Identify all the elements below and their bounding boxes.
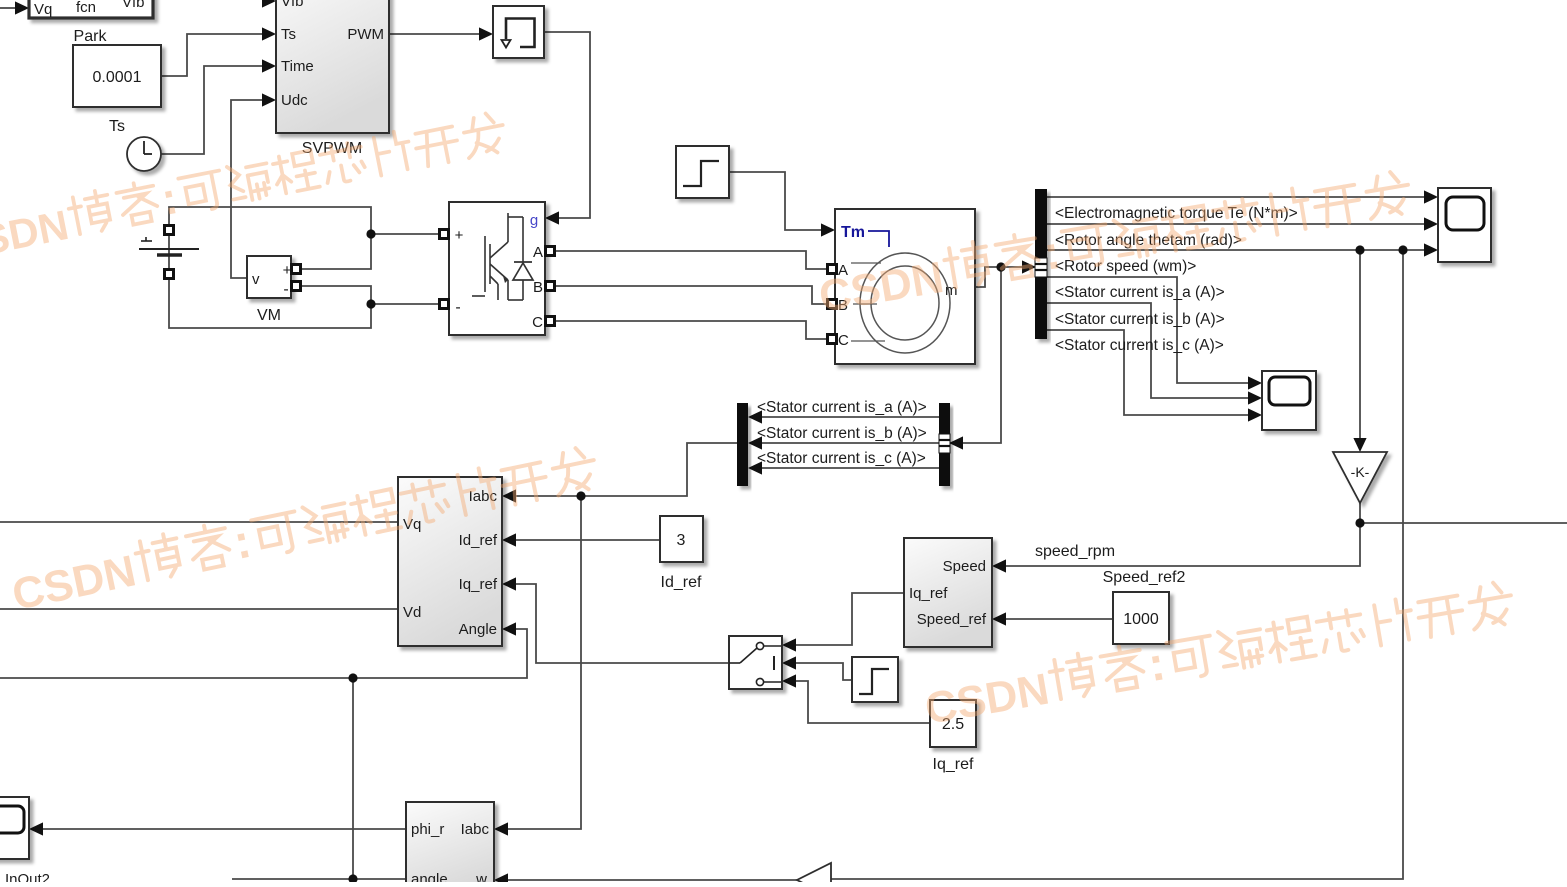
svg-text:Vfb: Vfb <box>281 0 304 10</box>
svg-text:-: - <box>455 299 460 316</box>
svg-text:Iq_ref: Iq_ref <box>459 576 498 593</box>
svg-text:Speed_ref: Speed_ref <box>917 611 987 628</box>
svg-text:angle: angle <box>411 871 448 882</box>
svg-text:Udc: Udc <box>281 92 308 109</box>
svg-text:Vfb: Vfb <box>122 0 145 11</box>
svg-text:phi_r: phi_r <box>411 821 444 838</box>
svg-text:<Electromagnetic torque Te (N*: <Electromagnetic torque Te (N*m)> <box>1055 205 1298 222</box>
svg-text:VM: VM <box>257 307 281 324</box>
svg-text:0.0001: 0.0001 <box>93 69 142 86</box>
svg-text:Vd: Vd <box>403 604 421 621</box>
svg-text:Ts: Ts <box>281 26 296 43</box>
svg-text:InOut2: InOut2 <box>5 871 50 882</box>
svg-text:<Rotor speed (wm)>: <Rotor speed (wm)> <box>1055 258 1196 275</box>
svg-text:PWM: PWM <box>347 26 384 43</box>
svg-text:Speed_ref2: Speed_ref2 <box>1103 569 1186 586</box>
svg-text:A: A <box>533 244 543 261</box>
svg-text:+: + <box>455 227 464 244</box>
svg-text:Id_ref: Id_ref <box>459 532 498 549</box>
svg-text:C: C <box>838 332 849 349</box>
svg-text:Park: Park <box>74 28 108 45</box>
svg-text:Vq: Vq <box>403 516 421 533</box>
svg-text:C: C <box>532 314 543 331</box>
svg-text:<Stator current is_c (A)>: <Stator current is_c (A)> <box>757 450 926 467</box>
svg-text:g: g <box>530 212 538 229</box>
svg-text:v: v <box>252 271 260 288</box>
svg-text:<Stator current is_a (A)>: <Stator current is_a (A)> <box>757 399 927 416</box>
svg-text:Angle: Angle <box>459 621 497 638</box>
svg-text:Speed: Speed <box>943 558 986 575</box>
svg-text:Tm: Tm <box>841 224 865 241</box>
svg-text:speed_rpm: speed_rpm <box>1035 543 1115 560</box>
svg-text:Ts: Ts <box>109 118 125 135</box>
svg-text:B: B <box>533 279 543 296</box>
svg-text:Id_ref: Id_ref <box>661 574 702 591</box>
svg-text:-K-: -K- <box>1351 464 1370 480</box>
svg-text:fcn: fcn <box>76 0 96 16</box>
svg-text:<Stator current is_b (A)>: <Stator current is_b (A)> <box>1055 311 1225 328</box>
svg-text:w: w <box>475 871 487 882</box>
svg-text:Time: Time <box>281 58 314 75</box>
svg-text:Iq_ref: Iq_ref <box>909 585 948 602</box>
svg-text:Vq: Vq <box>34 1 52 18</box>
svg-text:<Stator current is_c (A)>: <Stator current is_c (A)> <box>1055 337 1224 354</box>
svg-text:Iabc: Iabc <box>461 821 490 838</box>
svg-text:<Stator current is_b (A)>: <Stator current is_b (A)> <box>757 425 927 442</box>
svg-text:Iq_ref: Iq_ref <box>933 756 974 773</box>
svg-text:<Stator current is_a (A)>: <Stator current is_a (A)> <box>1055 284 1225 301</box>
svg-text:-: - <box>283 281 288 298</box>
svg-text:3: 3 <box>677 532 686 549</box>
svg-text:1000: 1000 <box>1123 611 1159 628</box>
